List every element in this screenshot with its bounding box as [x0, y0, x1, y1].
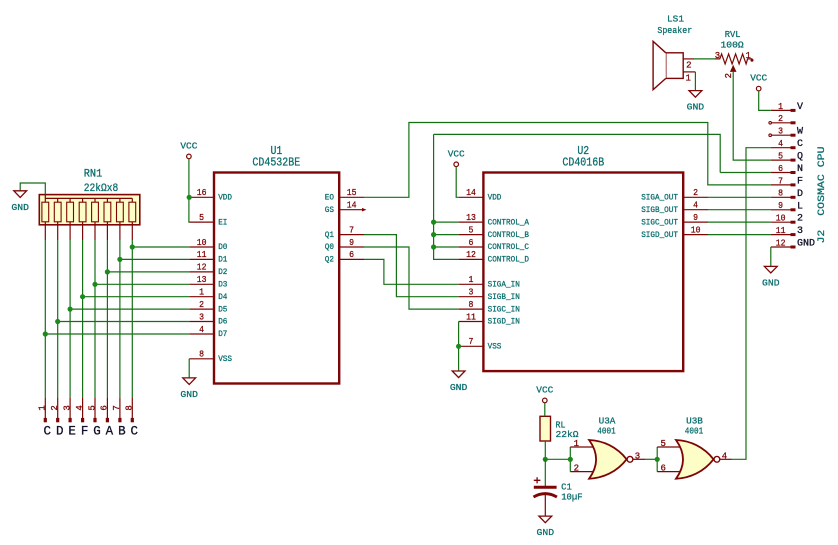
svg-text:Q: Q [797, 152, 803, 163]
power VCC (J2) [750, 73, 767, 91]
junction [130, 244, 135, 249]
junction control [431, 232, 436, 237]
svg-text:10: 10 [776, 214, 786, 224]
svg-text:8: 8 [125, 405, 135, 410]
svg-text:22kΩ: 22kΩ [556, 429, 579, 440]
svg-text:CD4016B: CD4016B [562, 156, 604, 169]
svg-text:1: 1 [469, 275, 474, 285]
svg-text:SIGB_IN: SIGB_IN [488, 292, 520, 302]
wire [770, 247, 772, 266]
wire [708, 221, 771, 223]
connector 8-pin (note outputs) [38, 398, 135, 422]
junction U3A input [568, 457, 573, 462]
wire net C [732, 148, 771, 460]
svg-text:RN1: RN1 [84, 169, 103, 181]
wire [708, 209, 771, 211]
svg-text:SIGC_IN: SIGC_IN [488, 304, 520, 314]
svg-text:D3: D3 [218, 280, 227, 290]
svg-text:5: 5 [469, 225, 474, 235]
svg-text:CD4532BE: CD4532BE [252, 156, 300, 169]
svg-text:V: V [797, 102, 803, 113]
svg-text:D0: D0 [218, 242, 227, 252]
svg-text:12: 12 [197, 263, 207, 273]
svg-text:E: E [68, 424, 76, 438]
junction [68, 307, 73, 312]
junction U3B input [655, 457, 660, 462]
svg-text:A: A [106, 424, 114, 438]
svg-text:3: 3 [715, 51, 720, 61]
svg-text:J2 COSMAC CPU: J2 COSMAC CPU [816, 147, 828, 244]
svg-text:GND: GND [762, 277, 780, 288]
wire to U1 D6 [58, 321, 190, 323]
svg-text:8: 8 [778, 189, 783, 199]
connector J2 COSMAC CPU [769, 102, 828, 249]
wire to U1 D1 [120, 258, 189, 260]
svg-text:12: 12 [466, 250, 476, 260]
svg-text:CONTROL_B: CONTROL_B [488, 230, 529, 240]
svg-text:2: 2 [686, 61, 691, 71]
svg-text:1: 1 [38, 405, 48, 410]
svg-text:GND: GND [687, 102, 705, 113]
wire [645, 458, 657, 460]
junction [105, 269, 110, 274]
svg-text:VCC: VCC [536, 384, 553, 395]
NOR gate U3A 4001 [570, 415, 645, 478]
svg-text:N: N [797, 164, 803, 175]
wire to U1 D7 [45, 333, 189, 335]
IC U2 CD4016B [459, 145, 708, 371]
svg-text:Q2: Q2 [325, 255, 334, 265]
svg-text:D1: D1 [218, 255, 227, 265]
svg-text:SIGC_OUT: SIGC_OUT [641, 217, 678, 227]
svg-text:15: 15 [347, 188, 357, 198]
svg-text:22kΩx8: 22kΩx8 [84, 183, 119, 195]
svg-text:6: 6 [469, 238, 474, 248]
IC U1 CD4532BE [189, 145, 364, 384]
svg-text:6: 6 [100, 405, 110, 410]
svg-text:SIGD_OUT: SIGD_OUT [641, 230, 678, 240]
svg-text:C: C [44, 424, 52, 438]
wire [708, 196, 771, 198]
wire VCC-EI [188, 159, 190, 222]
wire net Q [733, 72, 771, 160]
svg-text:2: 2 [797, 214, 803, 225]
svg-text:G: G [93, 424, 101, 438]
wire RN1 pin5 [94, 240, 96, 398]
svg-text:GND: GND [11, 202, 29, 213]
junction [43, 331, 48, 336]
ground GND (J2) [762, 266, 780, 288]
svg-text:GND: GND [450, 382, 468, 393]
power VCC (U1) [180, 140, 197, 158]
svg-text:C: C [797, 139, 803, 150]
wire net N b [434, 134, 721, 172]
svg-text:100Ω: 100Ω [721, 40, 744, 51]
svg-text:7: 7 [469, 337, 474, 347]
svg-text:EO: EO [325, 193, 334, 203]
wire [20, 183, 45, 195]
wire Q0-SIGC [364, 247, 459, 309]
svg-text:6: 6 [661, 463, 666, 473]
svg-text:3: 3 [635, 451, 640, 461]
svg-text:GND: GND [797, 239, 815, 250]
resistor RL 22k [540, 416, 579, 441]
svg-text:5: 5 [199, 213, 204, 223]
svg-text:VSS: VSS [218, 354, 232, 364]
power VCC (RL) [536, 384, 553, 402]
wire [708, 234, 771, 236]
svg-text:4: 4 [693, 201, 698, 211]
wire RN1 pin8 [131, 240, 133, 398]
svg-text:D6: D6 [218, 317, 227, 327]
svg-text:4001: 4001 [685, 426, 704, 437]
svg-text:SIGA_OUT: SIGA_OUT [641, 193, 678, 203]
svg-text:LS1: LS1 [667, 14, 684, 25]
svg-text:1: 1 [745, 51, 750, 61]
svg-text:6: 6 [349, 250, 354, 260]
svg-text:7: 7 [349, 225, 354, 235]
svg-text:13: 13 [466, 213, 476, 223]
svg-text:4: 4 [778, 139, 783, 149]
svg-text:EI: EI [218, 217, 227, 227]
wire [694, 58, 715, 60]
ground GND (U2) [450, 371, 468, 393]
svg-text:1: 1 [574, 439, 579, 449]
junction control [431, 244, 436, 249]
svg-text:14: 14 [466, 188, 476, 198]
svg-text:SIGA_IN: SIGA_IN [488, 280, 520, 290]
svg-text:3: 3 [778, 127, 783, 137]
svg-text:11: 11 [776, 226, 786, 236]
svg-text:7: 7 [778, 176, 783, 186]
power VCC (U2) [448, 148, 465, 166]
junction [80, 294, 85, 299]
junction VSS [456, 344, 461, 349]
svg-text:3: 3 [797, 226, 803, 237]
svg-text:4001: 4001 [597, 426, 616, 437]
wire control chain [434, 134, 459, 259]
svg-text:9: 9 [349, 238, 354, 248]
wire RN1 pin2 [57, 240, 59, 398]
wire net V [759, 91, 771, 111]
junction [55, 319, 60, 324]
svg-text:11: 11 [466, 312, 476, 322]
svg-text:CONTROL_C: CONTROL_C [488, 242, 529, 252]
svg-text:11: 11 [197, 250, 207, 260]
svg-text:10: 10 [197, 238, 207, 248]
svg-text:GND: GND [537, 527, 555, 538]
wire to U1 D2 [107, 271, 189, 273]
svg-text:5: 5 [778, 152, 783, 162]
wire Q1-SIGB [364, 235, 459, 297]
capacitor C1 10uF (polarized) [534, 477, 583, 502]
svg-text:VDD: VDD [488, 193, 502, 203]
ground GND (U1) [180, 378, 198, 400]
svg-text:VSS: VSS [488, 342, 502, 352]
wire Q2-SIGA [364, 259, 459, 284]
svg-text:D5: D5 [218, 304, 227, 314]
wire control stub [434, 234, 459, 236]
resistor network RN1 22kOhm x8 [39, 169, 140, 241]
svg-text:5: 5 [87, 405, 97, 410]
svg-text:2: 2 [574, 463, 579, 473]
wire C1 to ground [544, 495, 546, 516]
svg-text:D: D [797, 189, 803, 200]
svg-text:B: B [118, 424, 126, 438]
NOR gate U3B 4001 [657, 415, 732, 478]
wire control stub [434, 246, 459, 248]
junction VDD [187, 195, 192, 200]
svg-text:10µF: 10µF [561, 492, 583, 503]
svg-text:9: 9 [778, 201, 783, 211]
svg-text:2: 2 [778, 114, 783, 124]
svg-text:1: 1 [685, 74, 690, 84]
svg-text:L: L [797, 201, 803, 212]
wire [545, 441, 570, 459]
wire net N a [720, 172, 771, 174]
svg-text:F: F [81, 424, 89, 438]
junction [92, 282, 97, 287]
wire RN1 pin1 [44, 240, 46, 398]
wire RN1 pin6 [106, 240, 108, 398]
wire RN1 pin3 [69, 240, 71, 398]
svg-text:3: 3 [62, 405, 72, 410]
speaker LS1 [653, 14, 695, 90]
wire [544, 403, 546, 417]
svg-text:GS: GS [325, 205, 334, 215]
svg-text:CONTROL_A: CONTROL_A [488, 217, 530, 227]
junction control [431, 220, 436, 225]
svg-text:D: D [56, 424, 64, 438]
svg-text:GND: GND [180, 389, 198, 400]
svg-text:C: C [131, 424, 139, 438]
wire RN1 pin4 [82, 240, 84, 398]
svg-text:Q1: Q1 [325, 230, 334, 240]
svg-text:VDD: VDD [218, 193, 232, 203]
svg-text:8: 8 [199, 350, 204, 360]
wire to U1 D3 [95, 283, 189, 285]
svg-text:13: 13 [197, 275, 207, 285]
svg-text:W: W [797, 127, 803, 138]
svg-text:7: 7 [112, 405, 122, 410]
wire VSS-GND [188, 359, 190, 378]
svg-text:3: 3 [199, 312, 204, 322]
svg-text:4: 4 [722, 451, 727, 461]
pin 14 GS arrow [362, 208, 366, 212]
svg-text:1: 1 [778, 102, 783, 112]
svg-text:2: 2 [724, 73, 734, 78]
wire SIGD-VSS-GND [458, 322, 460, 371]
svg-text:8: 8 [469, 300, 474, 310]
svg-text:4: 4 [75, 405, 85, 410]
svg-text:4: 4 [199, 325, 204, 335]
wire to U1 D0 [132, 246, 189, 248]
svg-text:SIGD_IN: SIGD_IN [488, 317, 520, 327]
svg-text:VCC: VCC [180, 140, 197, 151]
svg-text:5: 5 [661, 439, 666, 449]
svg-text:VCC: VCC [750, 73, 767, 84]
wire net F [364, 123, 771, 198]
svg-text:2: 2 [693, 188, 698, 198]
svg-text:D7: D7 [218, 329, 227, 339]
wire to U1 D5 [70, 308, 189, 310]
svg-text:CONTROL_D: CONTROL_D [488, 255, 529, 265]
svg-text:6: 6 [778, 164, 783, 174]
svg-text:Speaker: Speaker [657, 25, 692, 36]
svg-text:SIGB_OUT: SIGB_OUT [641, 205, 678, 215]
wire control stub [434, 221, 459, 223]
potentiometer RVL 100 Ohm [715, 29, 754, 79]
svg-text:10: 10 [691, 225, 701, 235]
svg-text:VCC: VCC [448, 148, 465, 159]
ground GND (LS1) [687, 91, 705, 113]
svg-text:D2: D2 [218, 267, 227, 277]
svg-text:12: 12 [776, 238, 786, 248]
svg-text:1: 1 [199, 288, 204, 298]
wire [544, 459, 546, 486]
junction [117, 257, 122, 262]
svg-text:RVL: RVL [725, 29, 741, 40]
wire RN1 pin7 [119, 240, 121, 398]
svg-text:Q0: Q0 [325, 242, 334, 252]
svg-text:16: 16 [197, 188, 207, 198]
svg-text:2: 2 [199, 300, 204, 310]
svg-text:F: F [797, 176, 803, 187]
svg-text:2: 2 [50, 405, 60, 410]
svg-text:D4: D4 [218, 292, 227, 302]
ground GND (C1) [537, 516, 555, 538]
svg-text:14: 14 [347, 201, 357, 211]
wire [694, 72, 696, 90]
ground GND (RN1) [11, 191, 29, 213]
junction RL/C1 [543, 457, 548, 462]
svg-text:9: 9 [693, 213, 698, 223]
wire to U1 D4 [83, 296, 190, 298]
wire VCC-VDD [456, 167, 458, 198]
svg-text:3: 3 [469, 288, 474, 298]
